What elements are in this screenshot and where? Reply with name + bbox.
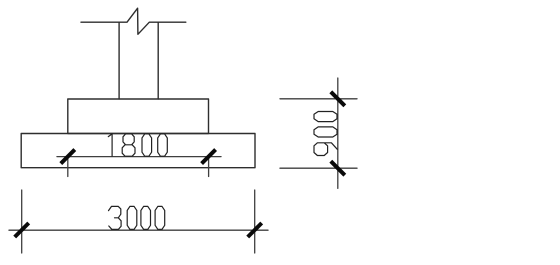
dimension 1800: right tick (202, 150, 216, 164)
dimension 3000: left tick (15, 223, 29, 237)
digit 8 (122, 134, 135, 156)
digit 0 (314, 112, 337, 122)
digit 0 (155, 206, 165, 229)
dimension 1800: left tick (61, 150, 75, 164)
digit 0 (141, 206, 151, 229)
dimension 3000: extension line right (254, 190, 256, 253)
column left edge (118, 22, 120, 99)
digit 1 (108, 134, 112, 156)
digit 9 (314, 143, 337, 156)
digit 3 (109, 206, 122, 229)
dimension text 1800 (108, 134, 167, 156)
digit 0 (314, 127, 337, 137)
dimension text 3000 (109, 206, 165, 229)
dimension 1800: dimension line (57, 156, 221, 158)
column break line (top cut symbol) (81, 8, 186, 34)
dimension 900: extension line bottom (280, 167, 357, 169)
dimension 1800: extension line right (208, 156, 210, 177)
dimension text 900 (rotated, reads bottom to top) (314, 112, 337, 156)
dimension 3000: dimension line (9, 229, 268, 231)
digit 0 (127, 206, 137, 229)
digit 0 (142, 134, 152, 156)
footing upper step rectangle (68, 99, 209, 134)
dimension 3000: extension line left (21, 190, 23, 253)
dimension 1800: extension line left (67, 156, 69, 177)
dimension 900: extension line top (280, 98, 357, 100)
digit 0 (158, 134, 168, 156)
dimension 900: top tick (331, 92, 345, 106)
dimension 900: bottom tick (331, 161, 345, 175)
footing base rectangle (21, 134, 255, 168)
column right edge (157, 22, 159, 99)
dimension 900: dimension line (337, 78, 339, 188)
dimension 3000: right tick (248, 223, 262, 237)
